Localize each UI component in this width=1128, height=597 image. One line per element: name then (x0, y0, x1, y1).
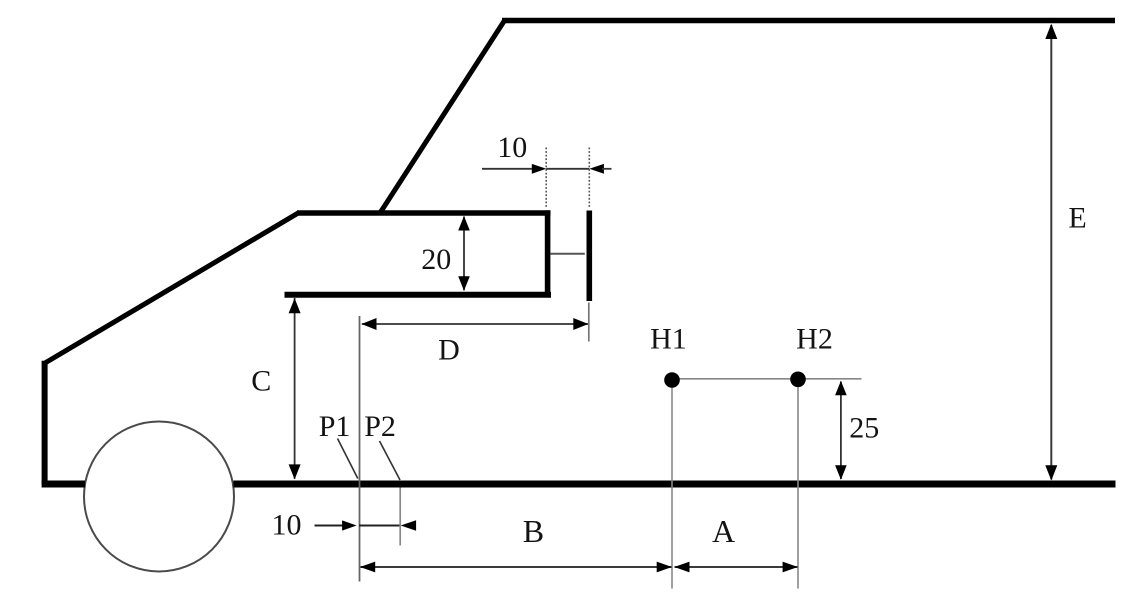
svg-text:20: 20 (421, 243, 451, 276)
svg-text:H1: H1 (650, 322, 687, 355)
svg-text:10: 10 (497, 131, 527, 164)
svg-text:C: C (251, 365, 271, 398)
svg-text:25: 25 (849, 411, 879, 444)
svg-text:P1: P1 (319, 410, 351, 443)
svg-text:B: B (523, 513, 544, 549)
svg-text:H2: H2 (796, 322, 833, 355)
svg-text:P2: P2 (364, 410, 396, 443)
svg-text:10: 10 (272, 509, 302, 542)
svg-text:D: D (438, 333, 460, 366)
svg-text:A: A (712, 513, 735, 549)
svg-text:E: E (1068, 202, 1086, 235)
